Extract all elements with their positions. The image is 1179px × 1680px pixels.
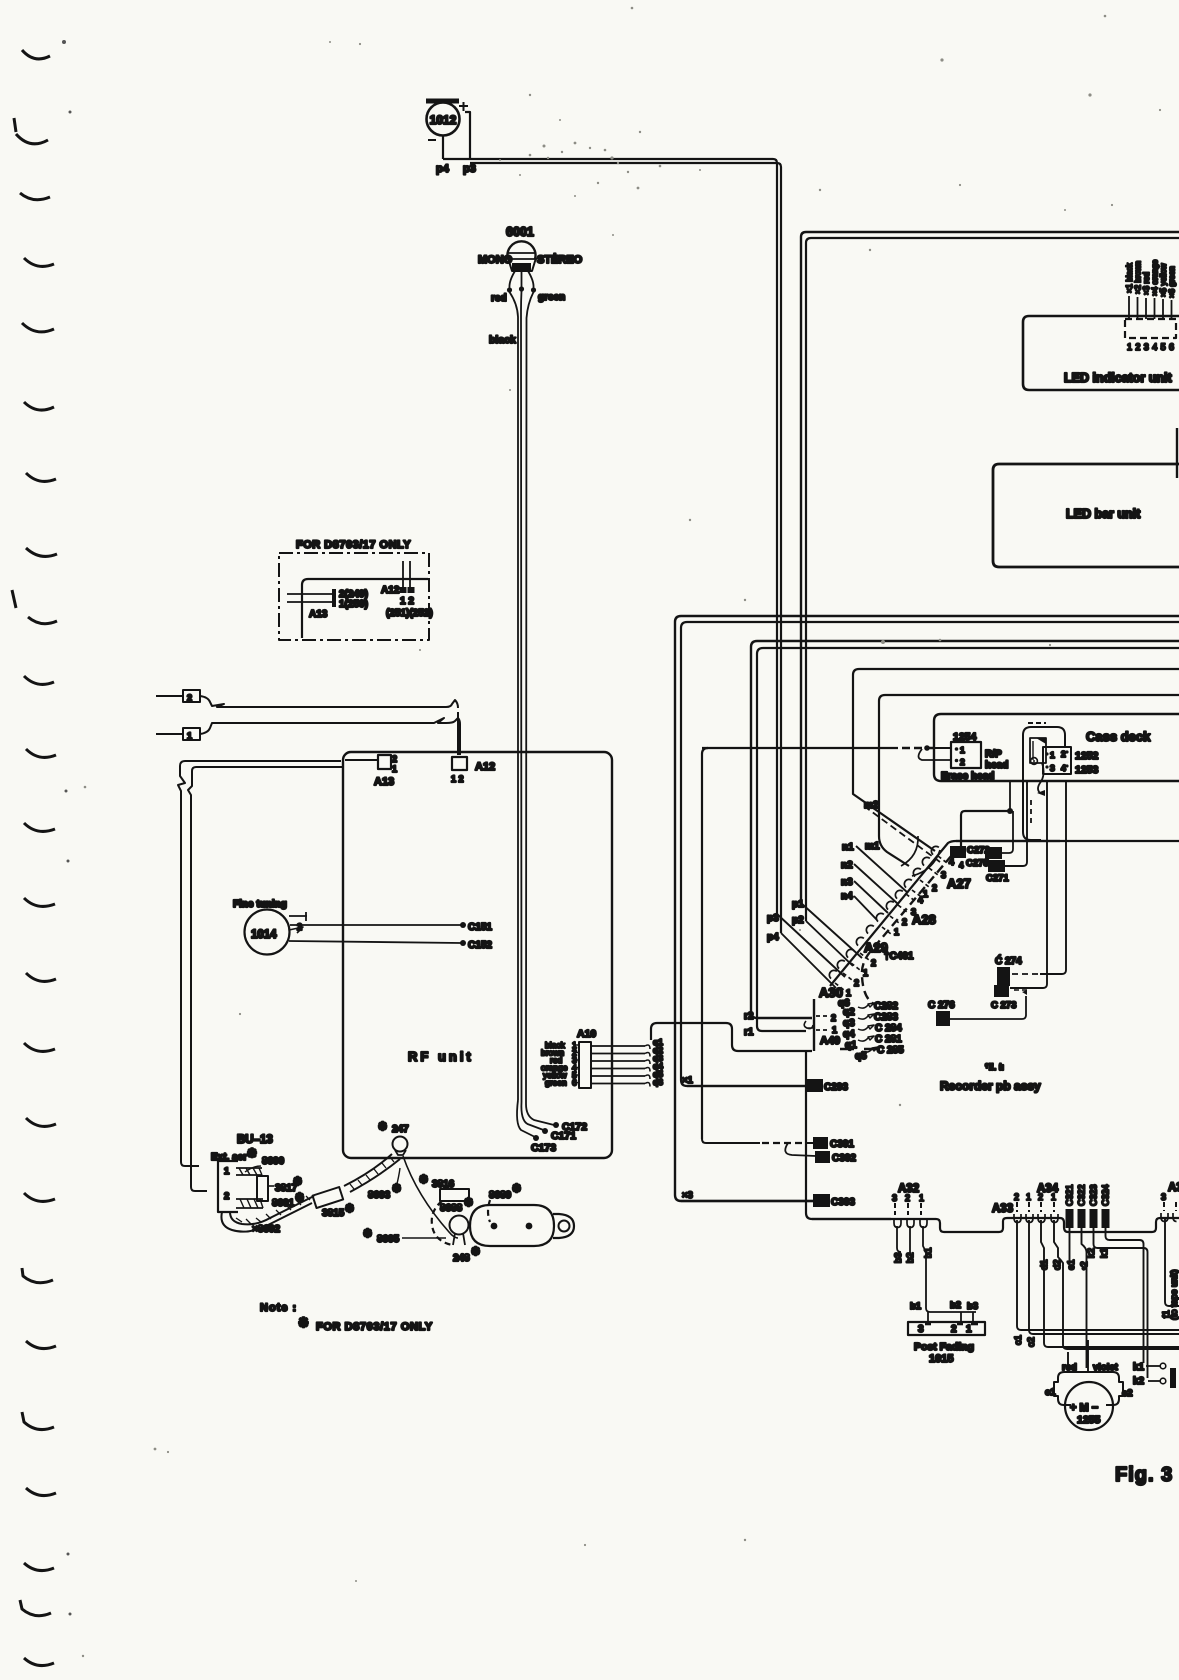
node C172	[553, 1122, 559, 1128]
right tab with hole	[553, 1214, 574, 1238]
svg-text:n1: n1	[842, 842, 854, 853]
wire C302	[785, 1143, 816, 1156]
inner wire frame D8703	[302, 579, 428, 638]
wire to BU13 lower	[188, 767, 343, 1191]
wire p1 diagonal	[801, 903, 862, 958]
svg-text:2: 2	[224, 1191, 229, 1202]
wire n3 diagonal	[854, 881, 888, 913]
svg-text:+ M −: + M −	[1070, 1402, 1098, 1414]
pin stubs A27	[835, 856, 947, 990]
svg-text:※: ※	[419, 1174, 428, 1186]
svg-text:3: 3	[918, 1324, 924, 1335]
wire C272 feed	[961, 811, 1008, 847]
svg-text:2: 2	[951, 1324, 957, 1335]
node C171	[542, 1128, 548, 1134]
svg-text:2: 2	[1061, 749, 1066, 759]
svg-text:FOR D8703/17 ONLY: FOR D8703/17 ONLY	[296, 539, 411, 551]
erase head 1254	[951, 742, 981, 768]
pad 2 hatched	[236, 1199, 263, 1208]
terminal bar	[1170, 1368, 1176, 1388]
A10 wire color labels	[541, 1040, 577, 1088]
wires e1 e2	[1069, 1228, 1071, 1268]
wires c1 c2	[1017, 1220, 1179, 1330]
svg-text:n3: n3	[841, 877, 853, 888]
svg-text:※: ※	[464, 1197, 473, 1209]
svg-text:MONO: MONO	[478, 254, 513, 266]
twin lead wire lower	[200, 718, 460, 755]
svg-text:(251)(252): (251)(252)	[386, 608, 433, 619]
svg-text:248: 248	[453, 1253, 470, 1264]
capacitor C271	[988, 860, 1005, 872]
pad 1 hatched	[236, 1168, 262, 1175]
wire C273 riser	[1010, 781, 1047, 988]
svg-text:A12: A12	[381, 585, 400, 596]
svg-text:8695: 8695	[377, 1234, 400, 1245]
wire violet into motor	[1087, 1340, 1089, 1372]
wire to C172	[526, 1104, 554, 1125]
wire m2 loop	[853, 669, 1179, 851]
svg-text:LED indicator unit: LED indicator unit	[1064, 371, 1172, 385]
svg-text:×8692: ×8692	[252, 1224, 281, 1235]
svg-text:C322: C322	[1077, 1184, 1087, 1206]
capacitor C322	[1078, 1209, 1086, 1228]
keyhole 248	[450, 1216, 469, 1235]
component 3816	[440, 1189, 469, 1201]
svg-text:C282: C282	[874, 1001, 898, 1012]
stub pin 2	[289, 912, 307, 921]
wires x1-x6 into connector	[1129, 296, 1172, 319]
wire x3 loop	[675, 616, 1179, 1201]
svg-text:red: red	[491, 293, 507, 304]
svg-text:※: ※	[293, 1176, 302, 1188]
svg-text:6001: 6001	[506, 225, 534, 239]
wire r1 loop	[757, 648, 1179, 1031]
lamp 247	[393, 1137, 408, 1152]
binding holes left margin	[12, 50, 57, 1666]
svg-text:b2: b2	[905, 1252, 916, 1263]
svg-text:q2: q2	[843, 1007, 855, 1018]
head lever	[1038, 763, 1044, 793]
svg-text:C302: C302	[832, 1153, 856, 1164]
svg-text:Erase head: Erase head	[941, 771, 994, 782]
svg-text:8690: 8690	[262, 1156, 285, 1167]
wire channel top	[651, 1023, 812, 1051]
Cass deck box	[934, 714, 1179, 781]
wire x1 to C293	[687, 1085, 807, 1087]
svg-text:1: 1	[832, 1025, 837, 1035]
svg-text:p4: p4	[767, 932, 779, 943]
svg-text:1: 1	[960, 745, 965, 755]
connector A13	[378, 755, 391, 769]
wire from lamp to 248	[403, 1156, 458, 1238]
right edge stub	[1176, 428, 1178, 478]
svg-text:•2: •2	[1079, 1261, 1090, 1270]
capacitor C303	[813, 1194, 830, 1207]
svg-text:3: 3	[1050, 763, 1055, 773]
svg-text:b3: b3	[967, 1301, 978, 1312]
svg-text:3: 3	[1161, 1192, 1166, 1202]
braided cable to lamp 247	[344, 1154, 392, 1186]
wire branch to erase pin2	[919, 749, 951, 760]
svg-text:FOR D8703/17 ONLY: FOR D8703/17 ONLY	[316, 1321, 433, 1333]
dashes above R/P head	[1028, 722, 1046, 724]
svg-text:n4: n4	[841, 891, 853, 902]
aerial plug 2	[156, 695, 183, 697]
svg-text:C275: C275	[966, 858, 989, 869]
svg-text:×3: ×3	[682, 1190, 693, 1201]
svg-text:Fine tuning: Fine tuning	[233, 899, 287, 910]
svg-text:×1: ×1	[682, 1075, 694, 1086]
svg-text:A12: A12	[475, 761, 495, 773]
svg-text:2: 2	[831, 1013, 836, 1023]
svg-text:red: red	[1062, 1362, 1077, 1373]
node erase feed	[924, 745, 930, 751]
node lever end	[1037, 790, 1045, 796]
svg-text:p2: p2	[792, 915, 804, 926]
R/P head symbol	[1030, 738, 1046, 763]
svg-text:(to tape unit): (to tape unit)	[1169, 1269, 1179, 1320]
wire erase head feed	[702, 748, 708, 1139]
svg-text:RF unit: RF unit	[408, 1049, 474, 1064]
wire r2 loop	[751, 641, 1179, 1018]
LED indicator unit box	[1023, 316, 1179, 390]
svg-text:1012: 1012	[430, 113, 457, 127]
svg-text:1015: 1015	[929, 1353, 953, 1365]
capacitor C293	[807, 1079, 823, 1092]
svg-text:p3: p3	[767, 913, 779, 924]
wire x3 to C303	[681, 1200, 813, 1202]
wire C271 up	[1005, 782, 1027, 866]
svg-text:C 273: C 273	[991, 1000, 1016, 1011]
svg-text:4: 4	[959, 861, 964, 870]
wire pair down to A12	[457, 712, 459, 755]
svg-text:4: 4	[1061, 763, 1066, 773]
svg-text:※: ※	[471, 1246, 480, 1258]
svg-text:1: 1	[919, 1193, 924, 1203]
connector A40	[813, 999, 815, 1051]
wires b3 b2 b1	[897, 1226, 901, 1252]
svg-text:c1: c1	[1013, 1335, 1024, 1345]
svg-text:d1: d1	[1039, 1259, 1050, 1270]
connector A12 alt pins	[403, 561, 410, 589]
svg-text:ˁ‼. ίı: ˁ‼. ίı	[985, 1062, 1004, 1072]
svg-text:violet: violet	[1093, 1362, 1119, 1373]
svg-text:A40: A40	[820, 1035, 840, 1047]
wire red into motor	[1067, 1352, 1069, 1372]
svg-text:Cass deck: Cass deck	[1086, 729, 1151, 744]
svg-text:A10: A10	[577, 1028, 596, 1040]
svg-text:1: 1	[1050, 750, 1055, 760]
svg-text:2: 2	[392, 754, 397, 764]
svg-text:※: ※	[298, 1315, 309, 1330]
capacitor C324	[1102, 1209, 1110, 1228]
wires into post fading	[928, 1312, 973, 1322]
ext aer socket BU-13	[218, 1161, 238, 1212]
wire to BU13 upper	[178, 761, 341, 1166]
dashed m2 parallel	[864, 806, 940, 862]
connector A13 alt pins	[287, 594, 333, 602]
aerial plug 1	[156, 733, 183, 735]
svg-text:n2: n2	[841, 860, 853, 871]
svg-text:C301: C301	[830, 1139, 854, 1150]
svg-text:※: ※	[378, 1121, 387, 1133]
pb board bottom edge with connector tabs	[812, 1218, 1179, 1232]
svg-text:r1: r1	[744, 1027, 754, 1038]
wire p2 top-right loop	[806, 238, 1179, 921]
svg-text:2: 2	[960, 757, 965, 767]
svg-text:2: 2	[1038, 1192, 1043, 1202]
svg-text:2: 2	[902, 917, 907, 927]
svg-text:1253: 1253	[1075, 764, 1099, 776]
svg-text:C151: C151	[468, 922, 492, 933]
wire f1	[1165, 1219, 1179, 1306]
svg-text:※: ※	[363, 1228, 372, 1240]
svg-text:2: 2	[932, 883, 937, 893]
braided cable to 3815	[221, 1203, 312, 1232]
wire red down	[510, 292, 519, 1100]
svg-text:3: 3	[941, 870, 946, 880]
svg-text:123456: 123456	[1127, 342, 1177, 352]
svg-text:※: ※	[512, 1183, 521, 1195]
svg-text:1(250): 1(250)	[339, 599, 368, 610]
A10 wires to q connector	[591, 1046, 645, 1084]
svg-text:1: 1	[392, 764, 397, 774]
pb assy edge diagonal + top	[830, 841, 1060, 986]
labels q1-q6	[653, 1037, 663, 1087]
svg-text:C303: C303	[831, 1197, 855, 1208]
wires k2 k1	[1094, 1228, 1148, 1378]
svg-text:2: 2	[187, 693, 192, 703]
wire to C173	[517, 1100, 535, 1137]
svg-text:A27: A27	[947, 876, 971, 891]
wire C301	[702, 1139, 760, 1143]
svg-text:8693: 8693	[368, 1190, 391, 1201]
arrows to C28x	[858, 1003, 878, 1052]
svg-text:C 276: C 276	[928, 1000, 955, 1011]
node below C273	[1014, 989, 1028, 991]
wires d1 d2	[1041, 1220, 1179, 1347]
svg-text:black: black	[489, 334, 516, 346]
svg-text:C173: C173	[531, 1142, 556, 1154]
svg-text:×6 green: ×6 green	[1168, 266, 1177, 298]
svg-text:C152: C152	[468, 940, 492, 951]
svg-text:1: 1	[863, 968, 868, 978]
svg-text:1: 1	[894, 927, 899, 937]
LED bar unit box	[993, 464, 1179, 567]
svg-text:r2: r2	[744, 1011, 754, 1022]
svg-text:4: 4	[949, 857, 954, 867]
svg-text:C321: C321	[1065, 1184, 1075, 1206]
svg-text:q1: q1	[845, 1040, 857, 1051]
Post Fading 1015 box	[908, 1322, 985, 1335]
svg-text:2: 2	[854, 978, 859, 988]
svg-text:1014: 1014	[251, 929, 277, 941]
svg-text:C171: C171	[551, 1130, 576, 1142]
capacitor C275	[985, 847, 1002, 859]
svg-text:q6: q6	[653, 1077, 663, 1087]
svg-text:p1: p1	[792, 899, 804, 910]
svg-text:head: head	[985, 760, 1008, 771]
svg-text:1: 1	[1026, 1192, 1031, 1202]
svg-text:Ć 274: Ć 274	[995, 954, 1022, 967]
svg-text:Post Fading: Post Fading	[914, 1341, 974, 1353]
wire x1 loop	[681, 622, 1179, 1086]
wire p4 diagonal	[781, 933, 836, 988]
svg-text:p3: p3	[463, 163, 476, 175]
svg-text:c2: c2	[1026, 1337, 1037, 1347]
antenna 1012	[426, 101, 470, 159]
component 3817	[257, 1176, 268, 1201]
svg-text:1: 1	[224, 1166, 230, 1177]
wire n4 diagonal	[854, 896, 877, 920]
svg-text:green: green	[538, 292, 565, 303]
wire p2 diagonal	[806, 921, 853, 966]
svg-text:b2: b2	[950, 1300, 961, 1311]
wire m1 loop	[879, 695, 1179, 866]
svg-text:C 285: C 285	[877, 1045, 904, 1056]
erase head feed horizontal	[702, 747, 898, 749]
q connector hooks	[645, 1045, 650, 1087]
RF unit box	[343, 752, 612, 1158]
svg-text:LED bar unit: LED bar unit	[1066, 507, 1141, 521]
svg-text:A33: A33	[992, 1203, 1013, 1215]
svg-text:4: 4	[918, 895, 923, 905]
svg-text:b3: b3	[893, 1252, 904, 1263]
switch 6001	[506, 241, 537, 292]
R/P head housing	[1023, 727, 1065, 830]
svg-text:C 281: C 281	[875, 1034, 902, 1045]
svg-text:C 284: C 284	[875, 1023, 902, 1034]
svg-text:1: 1	[187, 731, 192, 741]
svg-text:1255: 1255	[1077, 1414, 1101, 1426]
svg-text:1 2: 1 2	[400, 596, 414, 607]
dashed stub near C274	[1012, 973, 1038, 975]
svg-text:A3: A3	[1168, 1182, 1179, 1194]
pb assy left edge	[806, 1051, 891, 1219]
svg-text:8689: 8689	[489, 1190, 512, 1201]
capacitor C321	[1066, 1209, 1074, 1228]
wire C274 riser	[1040, 781, 1066, 974]
wire p3 diagonal	[777, 914, 845, 977]
connector dashed box 1-6	[1125, 319, 1176, 338]
svg-text:Note :: Note :	[260, 1302, 297, 1314]
capacitor C276	[936, 1011, 950, 1026]
wire n2 diagonal	[854, 864, 898, 904]
svg-text:C323: C323	[1089, 1184, 1099, 1206]
svg-text:†C401: †C401	[884, 951, 914, 962]
svg-text:1: 1	[846, 988, 851, 998]
svg-text:3: 3	[892, 1193, 897, 1203]
svg-text:※: ※	[345, 1203, 354, 1215]
svg-text:2: 2	[905, 1193, 910, 1203]
component 3815	[313, 1187, 344, 1208]
svg-text:3815: 3815	[322, 1208, 345, 1219]
svg-text:p4: p4	[436, 163, 450, 175]
capacitor C323	[1090, 1209, 1098, 1228]
svg-text:3816: 3816	[432, 1179, 455, 1190]
rivet dots	[491, 1223, 498, 1230]
svg-text:e1: e1	[1045, 1387, 1056, 1398]
svg-text:k2: k2	[1133, 1376, 1145, 1387]
wire labels x1 black ... x6 green (rotated)	[1125, 259, 1177, 298]
wire p4 horizontal to right	[443, 159, 777, 914]
dashed loop around keyhole	[432, 1201, 452, 1245]
dashed from 8689	[488, 1200, 490, 1222]
wire green down	[526, 292, 534, 1104]
connector loops on strip	[829, 846, 939, 978]
svg-text:C271: C271	[986, 873, 1009, 884]
svg-text:1252: 1252	[1075, 750, 1099, 762]
svg-text:e1: e1	[1066, 1259, 1077, 1270]
wire p1 top-right loop	[801, 232, 1179, 903]
svg-text:b1: b1	[923, 1247, 934, 1258]
svg-text:k1: k1	[1133, 1362, 1145, 1373]
svg-text:STĖREO: STĖREO	[537, 253, 583, 266]
mechanism stadium	[470, 1205, 554, 1246]
A10 pin ticks	[575, 1045, 579, 1083]
svg-text:2: 2	[1014, 1192, 1019, 1202]
wire to C171	[521, 1102, 543, 1130]
twin lead wire upper	[200, 696, 458, 708]
svg-text:BU–13: BU–13	[237, 1134, 273, 1146]
dashed mating outline along strip	[862, 855, 952, 1004]
pin box 1252/1253	[1043, 747, 1071, 774]
wire n1 diagonal	[856, 846, 908, 893]
svg-text:q3: q3	[843, 1018, 855, 1029]
svg-text:Recorder pb assy: Recorder pb assy	[940, 1079, 1041, 1093]
svg-text:A28: A28	[912, 912, 936, 927]
node C173	[533, 1135, 539, 1141]
capacitor C273	[994, 985, 1009, 997]
svg-text:k1: k1	[1099, 1248, 1110, 1258]
dash-dot box D8703	[279, 553, 429, 640]
svg-text:1: 1	[966, 1324, 972, 1335]
svg-text:247: 247	[392, 1124, 409, 1135]
svg-text:8688: 8688	[440, 1203, 463, 1214]
wire C152	[289, 941, 461, 943]
svg-text:1 2: 1 2	[451, 774, 464, 784]
svg-text:d2: d2	[1052, 1259, 1063, 1270]
m wires curves	[901, 836, 940, 876]
capacitor C302	[815, 1151, 830, 1163]
svg-text:A13: A13	[309, 609, 328, 620]
svg-text:k2: k2	[1086, 1248, 1097, 1258]
svg-text:e2: e2	[1122, 1388, 1133, 1399]
wire C275 up	[1002, 811, 1013, 853]
wire black down	[520, 291, 523, 1102]
svg-text:green: green	[545, 1078, 567, 1088]
svg-text:2: 2	[871, 958, 876, 968]
connector A10	[579, 1042, 591, 1088]
wire C276 link	[950, 996, 1026, 1019]
capacitor C274	[997, 967, 1010, 986]
motor M 1255	[1054, 1372, 1123, 1405]
svg-text:C324: C324	[1101, 1184, 1111, 1206]
capacitor C301	[813, 1137, 828, 1149]
fine tuning 1014	[245, 910, 290, 955]
svg-text:C293: C293	[824, 1082, 848, 1093]
wire p3 horizontal to right	[470, 163, 781, 933]
svg-text:C283: C283	[874, 1012, 898, 1023]
wire C151	[290, 924, 461, 926]
connector A12	[452, 757, 467, 770]
svg-text:1: 1	[923, 889, 928, 899]
svg-text:1: 1	[1051, 1192, 1056, 1202]
svg-text:R/P: R/P	[985, 749, 1002, 760]
svg-text:m2: m2	[864, 800, 879, 811]
capacitor C272	[950, 846, 966, 858]
svg-text:Fig. 3: Fig. 3	[1115, 1464, 1173, 1486]
